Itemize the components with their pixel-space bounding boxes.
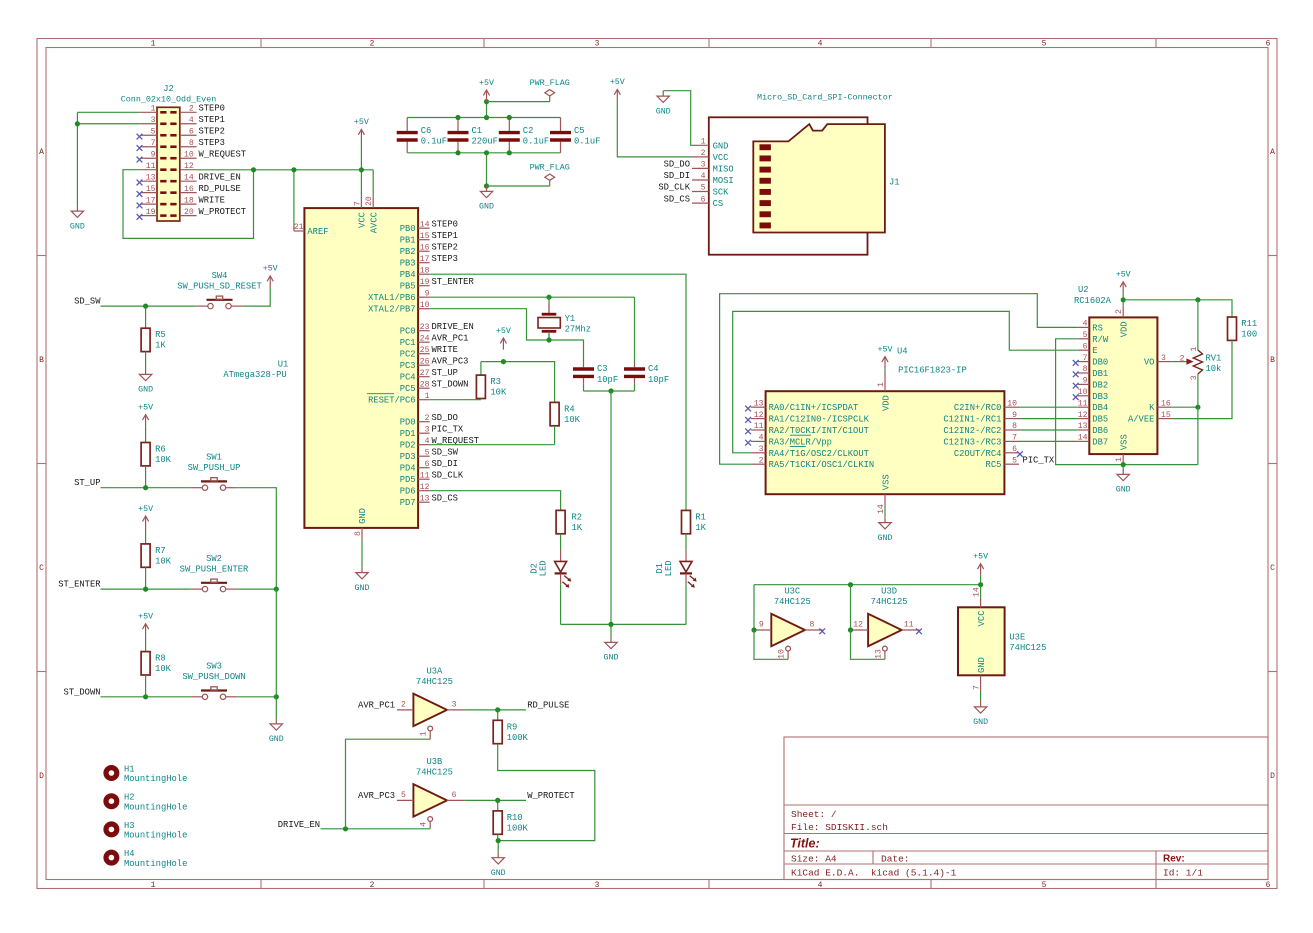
svg-text:DB0: DB0	[1092, 358, 1108, 368]
svg-text:WRITE: WRITE	[199, 195, 225, 205]
junction U3C input	[751, 627, 756, 632]
svg-text:+5V: +5V	[479, 79, 494, 88]
wire XTAL2 to crystal bottom/C3	[430, 309, 584, 362]
switch SW3	[182, 662, 245, 700]
resistor R2	[556, 510, 583, 533]
svg-text:Size: A4: Size: A4	[791, 854, 837, 865]
svg-text:A: A	[1270, 148, 1275, 157]
junction crystal top	[546, 295, 551, 300]
svg-text:14: 14	[1078, 434, 1088, 443]
wire ST_UP row	[101, 487, 191, 489]
svg-text:PD5: PD5	[400, 475, 416, 485]
svg-text:15: 15	[420, 232, 430, 241]
svg-text:11: 11	[146, 162, 156, 171]
wire R8 to row	[145, 675, 147, 697]
svg-text:19: 19	[420, 278, 430, 287]
svg-text:STEP0: STEP0	[199, 104, 225, 114]
svg-text:SD_CLK: SD_CLK	[432, 470, 464, 480]
svg-text:RC5: RC5	[986, 460, 1002, 470]
svg-text:B: B	[1270, 356, 1275, 365]
buffer U3A 74HC125	[397, 667, 465, 740]
wire RC0-RC3 to DB4-DB7	[1019, 407, 1078, 441]
wire cap bus to gnd	[486, 153, 488, 186]
svg-text:GND: GND	[138, 386, 153, 395]
mounting hole H2	[103, 793, 187, 813]
svg-text:10K: 10K	[155, 664, 172, 674]
svg-text:GND: GND	[1116, 486, 1131, 495]
wire U2 R/W to gnd	[1056, 339, 1124, 465]
svg-text:DB3: DB3	[1092, 392, 1108, 402]
svg-text:13: 13	[146, 173, 156, 182]
svg-text:12: 12	[853, 620, 863, 629]
ground symbol U1	[356, 567, 368, 579]
wire vertical ST_ENTER to ST_DOWN	[275, 589, 277, 697]
wire U3B out to W_PROTECT	[465, 799, 526, 801]
junction led gnd	[608, 622, 613, 627]
svg-text:3: 3	[452, 700, 457, 709]
svg-text:+5V: +5V	[354, 118, 369, 127]
svg-text:KiCad E.D.A. kicad (5.1.4)-1: KiCad E.D.A. kicad (5.1.4)-1	[791, 868, 957, 879]
ground symbol R5	[139, 369, 151, 381]
svg-text:DRIVE_EN: DRIVE_EN	[199, 172, 241, 182]
svg-text:5: 5	[1083, 331, 1088, 340]
svg-text:H4: H4	[124, 849, 135, 859]
junction C3C4 gnd	[608, 388, 613, 393]
svg-text:A/VEE: A/VEE	[1128, 415, 1154, 425]
svg-text:STEP3: STEP3	[432, 254, 458, 264]
U2 left pins	[1078, 320, 1109, 448]
svg-text:8: 8	[189, 139, 194, 148]
svg-text:C6: C6	[421, 126, 432, 136]
svg-text:1: 1	[420, 731, 429, 736]
junction W_PROTECT R10	[495, 798, 500, 803]
svg-text:0.1uF: 0.1uF	[523, 137, 549, 147]
IC U4 PIC16F1823 body	[766, 347, 1005, 495]
svg-text:RA1/C12IN0-/ICSPCLK: RA1/C12IN0-/ICSPCLK	[769, 415, 870, 425]
junction rail VCC	[359, 167, 364, 172]
wire R9 top	[497, 710, 499, 720]
svg-text:24: 24	[420, 334, 430, 343]
svg-text:STEP2: STEP2	[432, 242, 458, 252]
svg-text:12: 12	[420, 483, 430, 492]
svg-text:12: 12	[754, 411, 764, 420]
svg-text:R6: R6	[155, 445, 166, 455]
wire crystal gnd drop	[610, 391, 612, 624]
svg-text:D: D	[39, 772, 44, 781]
svg-text:RC1602A: RC1602A	[1074, 296, 1112, 306]
svg-text:25: 25	[420, 346, 430, 355]
svg-text:PB1: PB1	[400, 236, 416, 246]
U2 VDD pin	[1115, 306, 1130, 337]
connector J1 outline	[709, 93, 900, 255]
ground symbol leds	[605, 637, 617, 649]
svg-text:AVR_PC3: AVR_PC3	[432, 356, 469, 366]
no-connect U4 RA pins	[745, 406, 751, 446]
wire RA4 to U2 E	[733, 311, 1078, 452]
svg-text:U3E: U3E	[1009, 633, 1025, 643]
svg-text:DB7: DB7	[1092, 437, 1108, 447]
svg-text:MountingHole: MountingHole	[124, 831, 187, 841]
svg-text:5: 5	[151, 127, 156, 136]
svg-text:12: 12	[184, 162, 194, 171]
svg-text:2: 2	[370, 40, 375, 49]
svg-text:1K: 1K	[155, 341, 166, 351]
svg-text:0.1uF: 0.1uF	[421, 137, 447, 147]
wire XTAL1 to crystal/C4	[430, 296, 635, 298]
svg-text:RA2/T0CKI/INT/C1OUT: RA2/T0CKI/INT/C1OUT	[769, 426, 869, 436]
power +5V R8	[143, 624, 149, 636]
svg-text:1: 1	[151, 40, 156, 49]
wire pwr_flag top	[487, 101, 550, 103]
svg-text:5: 5	[401, 791, 406, 800]
svg-text:4: 4	[189, 116, 194, 125]
junction rail RV1	[1195, 297, 1200, 302]
wire D2 to gnd rail	[560, 584, 562, 624]
svg-text:C1: C1	[472, 126, 483, 136]
svg-text:VCC: VCC	[713, 153, 729, 163]
svg-text:PWR_FLAG: PWR_FLAG	[530, 78, 570, 88]
svg-text:+5V: +5V	[138, 403, 153, 412]
svg-text:C12IN3-/RC3: C12IN3-/RC3	[943, 437, 1001, 447]
svg-text:3: 3	[595, 40, 600, 49]
svg-text:6: 6	[452, 791, 457, 800]
svg-text:Rev:: Rev:	[1163, 854, 1185, 865]
wire R10 bottom to gnd	[497, 834, 499, 840]
svg-text:3: 3	[425, 425, 430, 434]
switch SW4	[177, 271, 261, 309]
junction ST_ENTER vertical	[274, 587, 279, 592]
svg-text:RD_PULSE: RD_PULSE	[527, 700, 569, 710]
svg-text:RA3/MCLR/Vpp: RA3/MCLR/Vpp	[769, 437, 832, 447]
svg-text:R8: R8	[155, 654, 166, 664]
wire SD_SW to R5	[145, 306, 147, 328]
wire pwr_flag bottom	[487, 185, 550, 187]
svg-text:17: 17	[146, 196, 156, 205]
wire U2 VSS stem	[1122, 465, 1124, 469]
wire U3D enable loop	[851, 630, 885, 659]
junction rail AREF	[291, 167, 296, 172]
junction rail U3E	[978, 582, 983, 587]
svg-text:PC4: PC4	[400, 373, 416, 383]
wire led gnd stem	[610, 624, 612, 637]
svg-text:U3B: U3B	[426, 757, 442, 767]
ground symbol J2	[71, 206, 83, 218]
wire SW4 to +5V	[243, 288, 271, 307]
svg-text:R7: R7	[155, 546, 166, 556]
svg-text:Y1: Y1	[565, 314, 576, 324]
svg-text:7: 7	[151, 139, 156, 148]
svg-text:74HC125: 74HC125	[871, 597, 908, 607]
svg-text:PIC16F1823-IP: PIC16F1823-IP	[898, 366, 967, 376]
wire ST_ENTER row	[101, 588, 191, 590]
junction U2 VSS gnd	[1121, 462, 1126, 467]
svg-text:SD_CS: SD_CS	[664, 194, 690, 204]
wire R5 to gnd	[145, 352, 147, 369]
svg-text:27Mhz: 27Mhz	[565, 325, 591, 335]
wire SW1 to vertical	[237, 488, 276, 589]
junction DRIVE_EN	[343, 826, 348, 831]
no-connect U3C output	[819, 628, 825, 634]
svg-text:5: 5	[1042, 881, 1047, 890]
wire U3E gnd	[980, 691, 982, 702]
U4 right pins	[943, 399, 1019, 470]
svg-text:R/W: R/W	[1092, 335, 1109, 345]
svg-text:6: 6	[1012, 445, 1017, 454]
svg-text:J2: J2	[163, 84, 174, 94]
junction U3D drop	[848, 582, 853, 587]
svg-text:GND: GND	[70, 222, 85, 231]
svg-text:PD1: PD1	[400, 429, 416, 439]
svg-text:5: 5	[425, 448, 430, 457]
junction RD_PULSE R9	[495, 707, 500, 712]
svg-text:10pF: 10pF	[648, 375, 669, 385]
switch SW2	[180, 554, 249, 592]
wire U1 gnd stem	[361, 540, 363, 567]
svg-text:4: 4	[420, 822, 429, 827]
svg-text:AVR_PC1: AVR_PC1	[358, 700, 395, 710]
power +5V R3	[500, 338, 506, 350]
svg-text:SW3: SW3	[206, 662, 222, 672]
svg-text:PB5: PB5	[400, 282, 416, 292]
svg-text:C3: C3	[597, 364, 608, 374]
svg-text:R2: R2	[572, 512, 583, 522]
connector J2 body	[121, 84, 217, 221]
svg-text:SW_PUSH_UP: SW_PUSH_UP	[188, 463, 241, 473]
wire K net to gnd rail	[1197, 407, 1199, 464]
svg-text:7: 7	[353, 201, 362, 206]
potentiometer RV1	[1172, 347, 1222, 381]
svg-text:RD_PULSE: RD_PULSE	[199, 184, 241, 194]
svg-text:2: 2	[701, 149, 706, 158]
U4 VSS pin	[877, 474, 892, 514]
resistor R1	[682, 510, 707, 533]
svg-text:+5V: +5V	[138, 505, 153, 514]
no-connect U2 DB0-DB3	[1073, 360, 1079, 400]
wire U3A out to RD_PULSE	[465, 709, 526, 711]
svg-text:10: 10	[1078, 388, 1088, 397]
svg-text:VO: VO	[1144, 358, 1155, 368]
wire +5V rail to R11	[1123, 300, 1232, 317]
U3E pins	[973, 587, 987, 691]
svg-text:RESET/PC6: RESET/PC6	[368, 396, 416, 406]
svg-text:RA0/C1IN+/ICSPDAT: RA0/C1IN+/ICSPDAT	[769, 403, 859, 413]
svg-text:C5: C5	[574, 126, 585, 136]
svg-text:100K: 100K	[507, 823, 529, 833]
svg-text:10pF: 10pF	[597, 375, 618, 385]
U2 VSS pin	[1115, 434, 1130, 464]
svg-text:C2OUT/RC4: C2OUT/RC4	[954, 449, 1002, 459]
svg-text:6: 6	[425, 460, 430, 469]
svg-text:74HC125: 74HC125	[416, 677, 453, 687]
no-connect U4 RC4	[1017, 451, 1023, 457]
svg-text:RV1: RV1	[1206, 354, 1222, 364]
svg-text:PC3: PC3	[400, 361, 416, 371]
resistor R11	[1228, 317, 1258, 340]
svg-text:11: 11	[754, 422, 764, 431]
svg-text:C: C	[39, 564, 44, 573]
J1 card contact pads	[760, 144, 771, 228]
wire +5V rail U3	[980, 575, 982, 584]
svg-text:C12IN1-/RC1: C12IN1-/RC1	[943, 415, 1001, 425]
svg-text:SW4: SW4	[212, 271, 228, 281]
svg-text:GND: GND	[358, 508, 368, 524]
capacitor C1	[448, 118, 498, 153]
svg-text:1: 1	[425, 392, 430, 401]
resistor R9	[493, 720, 528, 743]
svg-text:100: 100	[1241, 330, 1257, 340]
svg-text:10K: 10K	[564, 415, 581, 425]
svg-text:+5V: +5V	[1116, 271, 1131, 280]
svg-text:13: 13	[874, 649, 883, 659]
svg-text:13: 13	[420, 494, 430, 503]
svg-text:ST_DOWN: ST_DOWN	[64, 687, 101, 697]
svg-text:10K: 10K	[490, 388, 507, 398]
power +5V cap bank	[483, 90, 489, 102]
svg-text:4: 4	[425, 437, 430, 446]
svg-text:8: 8	[1083, 365, 1088, 374]
svg-text:0.1uF: 0.1uF	[574, 137, 600, 147]
svg-text:ST_UP: ST_UP	[432, 368, 458, 378]
svg-text:GND: GND	[479, 203, 494, 212]
svg-text:14: 14	[184, 173, 194, 182]
svg-text:A: A	[39, 148, 44, 157]
svg-text:AVCC: AVCC	[369, 212, 379, 233]
wire SW3 to vertical	[237, 696, 276, 698]
wire J2 pin11 loop to +5V rail	[123, 170, 254, 239]
svg-text:PC0: PC0	[400, 327, 416, 337]
svg-text:H2: H2	[124, 793, 135, 803]
svg-text:Date:: Date:	[881, 854, 910, 865]
junction +5V R3	[501, 359, 506, 364]
svg-text:7: 7	[1083, 354, 1088, 363]
svg-text:PC5: PC5	[400, 384, 416, 394]
svg-text:74HC125: 74HC125	[774, 597, 811, 607]
resistor R4	[550, 402, 581, 425]
svg-text:9: 9	[425, 289, 430, 298]
svg-text:20: 20	[184, 208, 194, 217]
svg-text:C2: C2	[523, 126, 534, 136]
svg-text:3: 3	[595, 881, 600, 890]
wire crystal top	[548, 297, 550, 314]
svg-text:+5V: +5V	[878, 345, 893, 354]
svg-text:K: K	[1149, 403, 1155, 413]
ground symbol U3E	[974, 702, 986, 714]
no-connect U3D output	[916, 628, 922, 634]
svg-text:6: 6	[1266, 40, 1271, 49]
svg-text:13: 13	[754, 399, 764, 408]
capacitor C6	[397, 118, 447, 153]
svg-text:220uF: 220uF	[472, 137, 498, 147]
wire C3 C4 bottoms	[583, 383, 585, 391]
wire ST_DOWN row	[101, 696, 191, 698]
svg-text:19: 19	[146, 208, 156, 217]
svg-text:PD0: PD0	[400, 418, 416, 428]
power flag bottom	[545, 174, 555, 186]
svg-text:13: 13	[1078, 422, 1088, 431]
svg-text:4: 4	[818, 881, 823, 890]
svg-text:15: 15	[1161, 411, 1171, 420]
svg-text:5: 5	[701, 184, 706, 193]
junction SD_SW R5	[143, 304, 148, 309]
wire R10 top	[497, 800, 499, 811]
svg-text:W_PROTECT: W_PROTECT	[199, 207, 247, 217]
svg-text:18: 18	[184, 196, 194, 205]
svg-text:74HC125: 74HC125	[416, 768, 453, 778]
svg-text:XTAL2/PB7: XTAL2/PB7	[368, 305, 416, 315]
mounting hole H1	[103, 765, 187, 785]
svg-text:ST_ENTER: ST_ENTER	[58, 580, 101, 590]
no-connect marks J2 odd pins	[137, 134, 143, 220]
svg-text:6: 6	[1083, 342, 1088, 351]
svg-text:RA4/T1G/OSC2/CLKOUT: RA4/T1G/OSC2/CLKOUT	[769, 449, 869, 459]
svg-text:DRIVE_EN: DRIVE_EN	[432, 322, 474, 332]
svg-text:10k: 10k	[1206, 364, 1222, 374]
svg-text:11: 11	[904, 620, 914, 629]
svg-text:SW_PUSH_ENTER: SW_PUSH_ENTER	[180, 564, 249, 574]
svg-text:PIC_TX: PIC_TX	[432, 424, 464, 434]
svg-text:100K: 100K	[507, 733, 529, 743]
svg-text:ST_DOWN: ST_DOWN	[432, 379, 469, 389]
svg-text:CS: CS	[713, 199, 724, 209]
svg-text:MountingHole: MountingHole	[124, 774, 187, 784]
wire DRIVE_EN to U3B enable	[321, 828, 431, 830]
power +5V J1	[614, 89, 620, 101]
wire vertical to gnd	[275, 697, 277, 719]
junction K RV1	[1195, 405, 1200, 410]
resistor R10	[493, 811, 528, 834]
svg-text:9: 9	[1083, 377, 1088, 386]
svg-text:15: 15	[146, 185, 156, 194]
svg-text:4: 4	[701, 172, 706, 181]
svg-text:3: 3	[1161, 354, 1166, 363]
svg-text:23: 23	[420, 323, 430, 332]
capacitor C3	[573, 362, 618, 385]
svg-text:+5V: +5V	[973, 553, 988, 562]
svg-text:RA5/T1CKI/OSC1/CLKIN: RA5/T1CKI/OSC1/CLKIN	[769, 460, 875, 470]
svg-text:GND: GND	[656, 107, 671, 116]
svg-text:10: 10	[1007, 399, 1017, 408]
wire rail to U3D input	[850, 585, 852, 630]
power flag top	[545, 90, 555, 102]
svg-text:2: 2	[1115, 309, 1124, 314]
LED D1	[655, 550, 697, 588]
svg-text:File: SDISKII.sch: File: SDISKII.sch	[791, 822, 888, 833]
IC U2 RC1602A body	[1074, 285, 1157, 454]
power +5V R7	[143, 516, 149, 528]
crystal Y1	[538, 303, 591, 339]
svg-text:DB2: DB2	[1092, 380, 1108, 390]
mounting hole H4	[103, 849, 187, 869]
svg-text:VSS: VSS	[1120, 434, 1130, 450]
svg-text:XTAL1/PB6: XTAL1/PB6	[368, 293, 416, 303]
svg-text:STEP1: STEP1	[199, 115, 225, 125]
svg-text:PB3: PB3	[400, 259, 416, 269]
svg-text:AREF: AREF	[307, 227, 328, 237]
svg-text:D: D	[1270, 772, 1275, 781]
resistor R6	[141, 443, 172, 466]
capacitor C4	[624, 362, 669, 385]
wire SD_SW row	[101, 305, 197, 307]
svg-text:R9: R9	[507, 722, 518, 732]
wire rail to RV1 top	[1197, 300, 1199, 350]
svg-text:+5V: +5V	[263, 265, 278, 274]
svg-text:6: 6	[189, 127, 194, 136]
svg-text:W_REQUEST: W_REQUEST	[199, 149, 247, 159]
svg-text:16: 16	[420, 243, 430, 252]
svg-text:Id: 1/1: Id: 1/1	[1163, 868, 1203, 879]
power +5V above U1	[358, 129, 364, 141]
svg-text:PD6: PD6	[400, 487, 416, 497]
